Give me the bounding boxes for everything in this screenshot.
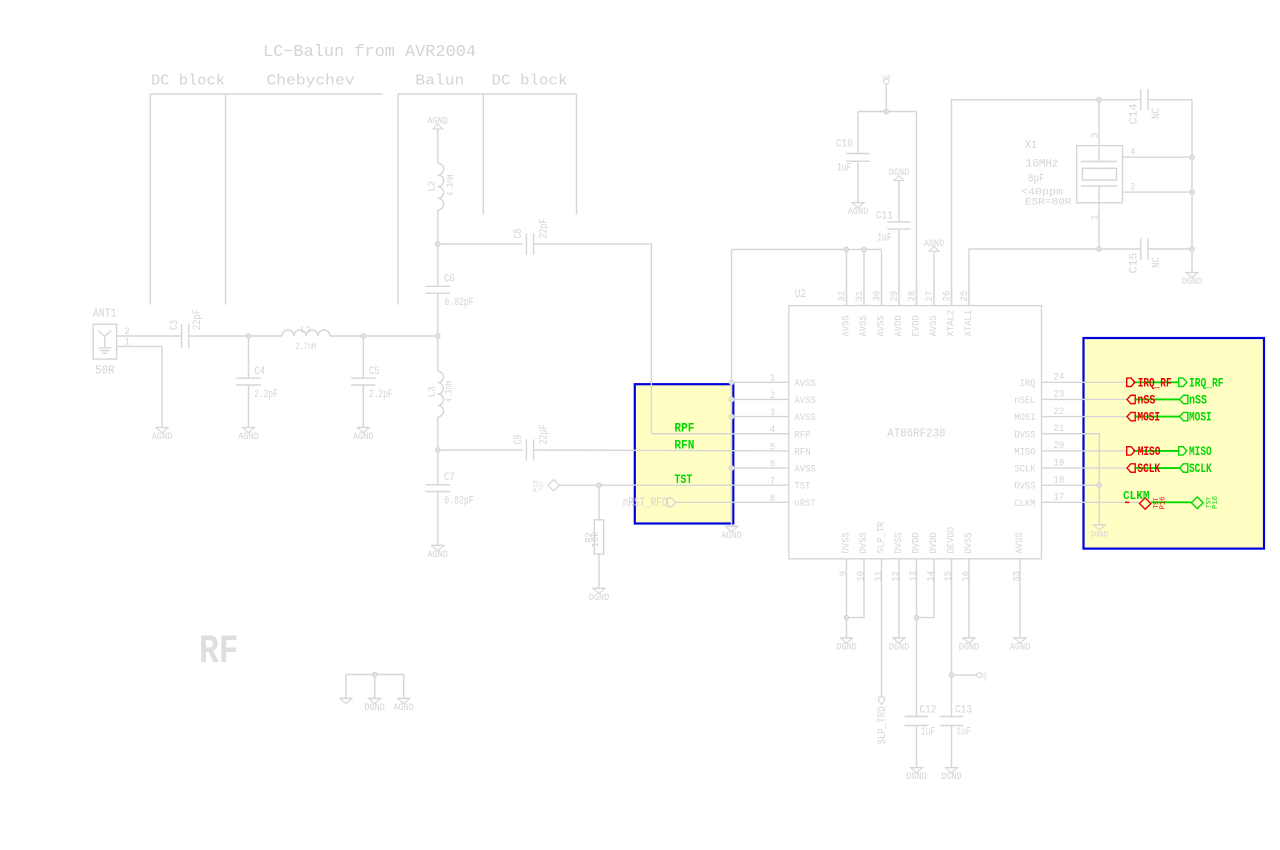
net label CLKM: [1123, 490, 1150, 503]
crystal pin 3: [1091, 100, 1102, 162]
wire L3 to C9 node: [437, 417, 439, 450]
node AVSS pin6: [729, 466, 734, 471]
capacitor C4 2.2pF: [236, 366, 277, 401]
wire node to C7: [437, 450, 439, 485]
svg-text:22pF: 22pF: [539, 425, 551, 445]
wire R2 to DGND: [598, 554, 600, 588]
svg-text:2.2pF: 2.2pF: [369, 389, 393, 401]
svg-text:DC block: DC block: [492, 73, 568, 90]
section label DC block (left): [151, 73, 225, 90]
node AVSS pin32: [844, 247, 849, 252]
wire node to R2: [598, 485, 600, 520]
svg-text:C14: C14: [1129, 103, 1141, 124]
crystal pin 1: [1091, 186, 1102, 249]
wire pin23 nSEL: [1042, 398, 1127, 400]
svg-text:IRQ_RF: IRQ_RF: [1189, 375, 1224, 390]
wire pin19 SCLK: [1042, 467, 1127, 469]
new global label SCLK: [1180, 461, 1212, 476]
node AVSS pin1: [729, 380, 734, 385]
crystal X1 body: [1077, 146, 1123, 203]
inductor L2 4.3nH: [427, 163, 457, 210]
op-amp U2 AT86RF230 body: [789, 288, 1042, 559]
svg-text:nRST: nRST: [795, 498, 816, 510]
svg-text:SCLK: SCLK: [1014, 464, 1036, 476]
svg-text:nSS: nSS: [1189, 392, 1207, 407]
wire node to C6: [437, 244, 439, 286]
svg-text:DGND: DGND: [906, 771, 927, 783]
ground DGND (pin12): [889, 638, 910, 654]
svg-text:C3: C3: [169, 320, 181, 330]
U2 top pins 32-25 names+numbers: [838, 291, 976, 337]
section label DC block (right): [492, 73, 568, 90]
svg-text:DGND: DGND: [364, 702, 385, 714]
old global label nSS: [1127, 392, 1156, 407]
node pin15 VDD: [949, 673, 954, 678]
svg-text:RPF: RPF: [674, 421, 694, 436]
wire new IRQ_RF: [1133, 381, 1179, 383]
wire pin31 riser: [863, 249, 865, 305]
svg-text:22pF: 22pF: [539, 219, 551, 239]
wire tie mid down: [374, 675, 376, 699]
svg-text:AGND: AGND: [393, 702, 414, 714]
capacitor C13 1uF: [940, 704, 972, 738]
wire pin22 MOSI: [1042, 416, 1127, 418]
wire C12 to DGND: [916, 726, 918, 768]
new testpoint P16: [1191, 496, 1220, 509]
wire pin10 down: [847, 559, 865, 618]
svg-text:MOSI: MOSI: [1189, 410, 1212, 425]
ground AGND (tie right): [393, 698, 414, 714]
wire P15 to U2 pin7: [559, 484, 789, 486]
wire pin14 down: [917, 559, 935, 618]
svg-text:SLP_TR: SLP_TR: [876, 521, 888, 553]
wire new SCLK: [1136, 467, 1180, 469]
wire new CLKM: [1151, 501, 1191, 503]
node crystal pin1 bottom: [1097, 247, 1102, 252]
svg-text:6: 6: [770, 459, 775, 470]
svg-text:DVSS: DVSS: [963, 532, 975, 553]
wire C4 down: [248, 385, 250, 428]
svg-text:DVSS: DVSS: [841, 532, 853, 553]
ground DGND (DVSS pins): [1091, 525, 1109, 540]
old global label SCLK: [1127, 461, 1160, 476]
svg-text:11: 11: [874, 571, 885, 582]
resistor R2 10k: [584, 520, 604, 554]
svg-text:ESR=80R: ESR=80R: [1025, 197, 1072, 209]
svg-text:AGND: AGND: [428, 549, 449, 561]
wire new MISO: [1133, 450, 1179, 452]
svg-text:AT86RF230: AT86RF230: [887, 427, 945, 440]
wire AVSS to pin3: [732, 416, 789, 418]
power flag VDD (top): [882, 75, 891, 85]
node C8 branch: [436, 242, 441, 247]
wire AVSS to pin2: [732, 398, 789, 400]
svg-text:C4: C4: [254, 366, 265, 378]
svg-text:DGND: DGND: [589, 592, 610, 604]
ground AGND (C10): [848, 203, 869, 219]
antenna pin 1 label: [124, 338, 129, 349]
wire XTAL1 riser pin25: [969, 249, 1140, 306]
crystal X1 labels: [1021, 140, 1072, 209]
node ground tie: [372, 672, 377, 677]
svg-text:C5: C5: [369, 366, 380, 378]
capacitor C5 2.2pF: [351, 366, 392, 401]
wire pin30 riser: [881, 249, 883, 305]
svg-text:16MHz: 16MHz: [1026, 158, 1059, 170]
svg-text:DVDD: DVDD: [911, 532, 923, 553]
bracket line x576: [576, 94, 578, 214]
power flag VDD (bottom): [977, 672, 989, 681]
antenna pin 2 label: [124, 327, 129, 338]
svg-text:AVSS: AVSS: [841, 315, 853, 336]
svg-text:ANT1: ANT1: [93, 307, 117, 320]
inductor L3 4.3nH: [426, 371, 455, 417]
wire EVDD riser pin28: [916, 112, 918, 306]
wire L2 to C6 node: [437, 210, 439, 244]
svg-text:AVDD: AVDD: [893, 315, 905, 336]
svg-text:L1: L1: [301, 325, 312, 337]
node C9 branch: [436, 448, 441, 453]
svg-text:L2: L2: [427, 181, 439, 192]
svg-text:DVDD: DVDD: [928, 532, 940, 553]
svg-text:1: 1: [770, 374, 775, 385]
wire C6 to main node: [437, 293, 439, 336]
inductor L1 2.7nH: [282, 325, 330, 353]
node main line / C5: [361, 334, 366, 339]
node AVSS pin2: [729, 397, 734, 402]
wire tie left down: [345, 675, 347, 699]
wire RFP to U2 pin4: [651, 433, 788, 435]
wire pin21 DVSS: [1042, 434, 1100, 525]
wire C3 to L1: [189, 335, 282, 337]
U2 bottom pins 9-16,33 names+numbers: [839, 521, 1026, 581]
node pin4 rail: [1190, 155, 1195, 160]
ground AGND (C7): [428, 545, 449, 561]
svg-text:LC−Balun from AVR2004: LC−Balun from AVR2004: [263, 42, 476, 61]
ground DGND (R2): [589, 588, 610, 604]
wire ANT1 pin1 to AGND: [117, 346, 162, 427]
new global label MISO: [1179, 444, 1212, 459]
svg-text:EVDD: EVDD: [911, 315, 923, 336]
wire C10 to AGND: [857, 161, 859, 202]
svg-text:DVSS: DVSS: [1014, 481, 1035, 493]
section bracket bar right: [398, 93, 577, 95]
svg-text:RFN: RFN: [674, 438, 694, 453]
svg-text:1uF: 1uF: [837, 162, 852, 174]
ground AGND (pin33): [1010, 638, 1031, 654]
ground DGND (C13): [941, 768, 962, 784]
svg-text:VDD: VDD: [882, 75, 891, 81]
wire nRST_RFD to U2 pin8: [676, 501, 789, 503]
svg-text:22pF: 22pF: [192, 309, 204, 330]
wire to VDD flag: [952, 674, 977, 676]
svg-text:2: 2: [1130, 182, 1135, 193]
ground AGND (C5): [353, 428, 374, 444]
svg-text:8: 8: [770, 494, 775, 505]
svg-text:AVSS: AVSS: [928, 315, 940, 336]
node main line / C4: [246, 334, 251, 339]
svg-text:X1: X1: [1025, 140, 1037, 152]
capacitor C8 22pF: [513, 219, 551, 255]
wire L1 to balun node: [330, 335, 438, 337]
svg-text:AGND: AGND: [1010, 642, 1031, 654]
svg-text:9: 9: [839, 571, 850, 576]
svg-text:AGND: AGND: [152, 431, 173, 443]
svg-text:4: 4: [770, 425, 775, 436]
svg-text:AVSS: AVSS: [858, 315, 870, 336]
wire pin11 SLP_TR down: [881, 559, 883, 697]
svg-text:RF: RF: [199, 630, 239, 675]
wire new MOSI: [1136, 416, 1180, 418]
svg-text:DGND: DGND: [1091, 529, 1109, 539]
svg-text:MISO: MISO: [1189, 444, 1212, 459]
capacitor C7 0.82pF: [426, 472, 474, 508]
svg-text:4: 4: [1130, 147, 1135, 158]
wire pin16 down: [968, 559, 970, 638]
svg-text:2: 2: [770, 391, 775, 402]
wire C4 up: [248, 336, 250, 378]
capacitor C9 22pF: [513, 425, 551, 461]
svg-text:33: 33: [1013, 571, 1024, 582]
highlight box RF pins (RPF/RFN/TST): [635, 384, 734, 523]
svg-text:P16: P16: [1160, 497, 1168, 510]
capacitor C14 NC: [1129, 89, 1164, 125]
wire pin17 CLKM: [1042, 501, 1140, 503]
svg-text:IRQ: IRQ: [1020, 378, 1036, 390]
svg-text:MOSI: MOSI: [1137, 410, 1160, 425]
svg-text:2.7nH: 2.7nH: [296, 341, 316, 353]
capacitor C15 NC: [1129, 238, 1164, 273]
new global label nSS: [1180, 392, 1208, 407]
wire AGND to pin27: [933, 251, 935, 305]
wire XTAL2 riser pin26: [952, 100, 1141, 306]
svg-text:SLP_TRD: SLP_TRD: [877, 706, 889, 744]
old global label MOSI: [1127, 410, 1160, 425]
net label TST: [674, 472, 692, 487]
U2 left pins 1-8 names+numbers: [770, 374, 816, 510]
wire C11 to pin29: [898, 229, 900, 306]
wire pin20 MISO: [1042, 450, 1127, 452]
wire pin9 down: [846, 559, 848, 638]
svg-text:SCLK: SCLK: [1189, 461, 1212, 476]
node VDD junction: [884, 109, 889, 114]
ground DGND (pin16): [959, 638, 980, 654]
svg-text:SCLK: SCLK: [1137, 461, 1160, 476]
svg-text:AGND: AGND: [428, 116, 449, 128]
svg-text:P16: P16: [1212, 496, 1220, 509]
ground AGND (pin27): [924, 238, 945, 251]
svg-text:DVSS: DVSS: [858, 532, 870, 553]
svg-text:DVSS: DVSS: [1014, 429, 1035, 441]
wire DGND to C11: [898, 181, 900, 222]
svg-text:AGND: AGND: [848, 206, 869, 218]
svg-text:AVSS: AVSS: [795, 464, 816, 476]
global label SLP_TRD: [877, 697, 889, 744]
net label RPF: [674, 421, 694, 436]
ground AGND (AVSS bus): [721, 526, 742, 542]
antenna ANT1 50R: [93, 307, 117, 377]
highlight box SPI pins (IRQ/nSEL/MOSI/MISO/SCLK/CLKM): [1084, 338, 1265, 549]
ground DGND (C11 top): [889, 167, 910, 180]
wire C5 up: [362, 336, 364, 378]
old global label IRQ_RF: [1127, 375, 1172, 390]
U2 top pin stubs: [847, 283, 970, 306]
svg-text:IRQ_RF: IRQ_RF: [1138, 375, 1172, 390]
svg-text:MISO: MISO: [1138, 444, 1161, 459]
svg-text:DGND: DGND: [889, 642, 910, 654]
testpoint P15: [533, 480, 560, 493]
wire right rail: [1191, 100, 1193, 273]
svg-text:C15: C15: [1129, 253, 1141, 274]
svg-text:0.82pF: 0.82pF: [444, 297, 473, 309]
node main line / balun: [436, 334, 441, 339]
wire AVSS top bus: [732, 248, 882, 250]
capacitor C3: [169, 309, 204, 348]
wire C8 to RFP corner: [534, 244, 652, 434]
wire pin32 riser: [846, 249, 848, 305]
section bracket bar left: [150, 93, 382, 95]
svg-text:15: 15: [944, 571, 955, 582]
node R2 branch: [597, 483, 602, 488]
svg-text:AVSS: AVSS: [1014, 532, 1026, 553]
wire pin33 down: [1019, 559, 1021, 638]
old testpoint P16: [1125, 497, 1168, 510]
wire C15 to rail: [1148, 248, 1192, 250]
svg-text:NC: NC: [1151, 108, 1163, 119]
svg-text:16: 16: [962, 571, 973, 582]
svg-text:AVSS: AVSS: [876, 315, 888, 336]
wire C13 to DGND: [951, 726, 953, 768]
wire VDD to C10: [857, 112, 859, 154]
svg-text:DGND: DGND: [836, 642, 857, 654]
svg-text:DGND: DGND: [1182, 276, 1203, 288]
svg-text:nSS: nSS: [1137, 392, 1155, 407]
capacitor C12 1uF: [905, 704, 937, 738]
ground AGND (L2 top): [428, 116, 449, 129]
svg-text:C13: C13: [955, 704, 972, 716]
svg-text:AGND: AGND: [238, 431, 259, 443]
new global label MOSI: [1180, 410, 1212, 425]
node pin2 rail: [1190, 190, 1195, 195]
svg-text:C8: C8: [513, 229, 525, 239]
svg-text:AGND: AGND: [924, 238, 945, 250]
new global label IRQ_RF: [1179, 375, 1224, 390]
svg-text:DC block: DC block: [151, 73, 225, 90]
svg-text:3: 3: [770, 408, 775, 419]
svg-text:4.3nH: 4.3nH: [445, 175, 457, 196]
bracket line x150: [149, 94, 151, 305]
global label nRST_RFD: [623, 495, 676, 510]
wire new nSS: [1136, 398, 1180, 400]
bracket line x399: [397, 94, 399, 305]
svg-text:1: 1: [1091, 215, 1102, 220]
svg-text:DGND: DGND: [959, 642, 980, 654]
svg-text:C7: C7: [444, 472, 455, 484]
svg-text:2.2pF: 2.2pF: [254, 389, 278, 401]
svg-text:C6: C6: [444, 274, 455, 286]
svg-text:1uF: 1uF: [956, 727, 971, 739]
ground (tie left): [340, 698, 352, 703]
svg-text:DVSS: DVSS: [893, 532, 905, 553]
svg-text:CLKM: CLKM: [1123, 490, 1150, 503]
svg-text:1uF: 1uF: [877, 233, 892, 245]
wire tie right down: [403, 675, 405, 699]
svg-text:4.3nH: 4.3nH: [443, 381, 455, 402]
wire node to L3: [437, 336, 439, 371]
node crystal pin3 top: [1097, 97, 1102, 102]
wire C14 to right rail: [1148, 99, 1192, 101]
wire pin24 IRQ: [1042, 381, 1127, 383]
svg-text:Balun: Balun: [415, 73, 464, 90]
svg-text:5: 5: [770, 442, 775, 453]
ground DGND (tie mid): [364, 698, 385, 714]
svg-text:Chebychev: Chebychev: [267, 73, 355, 90]
wire AVSS to pin6: [732, 467, 789, 469]
svg-text:CLKM: CLKM: [1014, 498, 1035, 510]
svg-text:12: 12: [892, 571, 903, 582]
svg-text:DGND: DGND: [941, 771, 962, 783]
ground DGND (crystal): [1182, 273, 1203, 289]
svg-text:13: 13: [909, 571, 920, 582]
svg-text:C11: C11: [876, 210, 893, 222]
svg-text:3: 3: [1091, 133, 1102, 138]
node DVSS join: [1097, 483, 1102, 488]
ground AGND (C4): [238, 428, 259, 444]
svg-text:1uF: 1uF: [921, 727, 936, 739]
svg-text:XTAL2: XTAL2: [946, 310, 958, 337]
title LC-Balun from AVR2004: [263, 42, 476, 61]
wire pin12 down: [898, 559, 900, 638]
node pin9/10: [844, 615, 849, 620]
svg-text:AVSS: AVSS: [795, 412, 816, 424]
section label Chebychev: [267, 73, 355, 90]
svg-text:10k: 10k: [590, 532, 602, 548]
svg-text:MOSI: MOSI: [1014, 412, 1035, 424]
wire ground tie bus: [346, 674, 404, 676]
svg-text:RFP: RFP: [795, 429, 811, 441]
crystal pin 4 wire: [1123, 147, 1193, 158]
svg-text:14: 14: [927, 571, 938, 582]
ground AGND (antenna): [152, 428, 173, 444]
svg-text:50R: 50R: [95, 365, 115, 378]
wire pin15 down: [951, 559, 953, 717]
crystal pin 2 wire: [1123, 182, 1193, 193]
svg-text:NC: NC: [1151, 257, 1163, 268]
svg-text:XTAL1: XTAL1: [963, 310, 975, 337]
wire VDD bus: [858, 111, 917, 113]
wire C7 to AGND: [437, 492, 439, 546]
capacitor C11 1uF: [876, 210, 911, 244]
wire AVSS to pin1: [732, 381, 789, 383]
svg-text:AVSS: AVSS: [795, 378, 816, 390]
svg-text:0.82pF: 0.82pF: [444, 495, 473, 507]
svg-text:C9: C9: [513, 435, 525, 445]
svg-text:AGND: AGND: [353, 431, 374, 443]
svg-text:8pF: 8pF: [1028, 174, 1045, 186]
svg-text:AGND: AGND: [721, 530, 742, 542]
wire VDD down: [885, 84, 887, 112]
svg-text:7: 7: [770, 477, 775, 488]
svg-text:DEVDD: DEVDD: [946, 527, 958, 554]
U2 right pins 24-17 names+numbers: [1014, 373, 1064, 510]
node C15 rail: [1190, 247, 1195, 252]
svg-text:10: 10: [857, 571, 868, 582]
wire pin18 DVSS: [1042, 484, 1100, 486]
old global label MISO: [1127, 444, 1161, 459]
node pin13/14: [914, 615, 919, 620]
node AVSS pin3: [729, 414, 734, 419]
bracket line x484: [482, 94, 484, 214]
